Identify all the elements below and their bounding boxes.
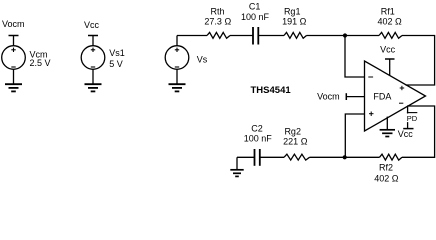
- resistor Rf2: [380, 154, 403, 160]
- ground (below Vs1): [85, 84, 102, 91]
- svg-text:27.3 Ω: 27.3 Ω: [204, 17, 231, 27]
- terminal Vcc: [88, 35, 98, 37]
- wire Vocm to FDA: [346, 96, 364, 98]
- wire Rg2 to junction and Rf2: [310, 156, 380, 158]
- capacitor C2: [255, 149, 260, 166]
- svg-text:THS4541: THS4541: [251, 85, 292, 96]
- voltage source Vs1: [81, 36, 105, 85]
- svg-text:Rth: Rth: [210, 6, 224, 16]
- svg-text:C1: C1: [249, 2, 261, 12]
- svg-text:191 Ω: 191 Ω: [282, 17, 307, 27]
- wire Rf2 to bottom output (feedback): [402, 106, 435, 157]
- wire ground to C2: [237, 156, 255, 158]
- pin plus (output): [400, 86, 405, 90]
- pin PD (power down) wire: [407, 106, 409, 128]
- pin label PD (overbar): [406, 113, 419, 124]
- terminal Vcc supply: [385, 58, 395, 60]
- voltage source Vcm: [2, 36, 26, 85]
- ground (below Vs): [169, 84, 186, 91]
- svg-text:5 V: 5 V: [109, 59, 123, 69]
- svg-text:Rf2: Rf2: [379, 163, 393, 173]
- resistor Rg1: [284, 32, 307, 38]
- wire Vs to Rth: [177, 35, 207, 37]
- resistor Rg2: [284, 154, 310, 160]
- pin minus (output): [399, 102, 403, 104]
- terminal Vocm input: [345, 93, 347, 100]
- svg-text:100 nF: 100 nF: [244, 134, 273, 144]
- wire Rf1 to top output (feedback): [402, 36, 435, 86]
- svg-text:Vs: Vs: [197, 54, 208, 64]
- resistor Rth: [207, 32, 230, 38]
- terminal Vocm: [9, 35, 19, 37]
- svg-text:Vs1: Vs1: [109, 48, 125, 58]
- svg-text:221 Ω: 221 Ω: [283, 137, 308, 147]
- pin plus (input): [369, 112, 374, 117]
- svg-text:Vocm: Vocm: [2, 19, 25, 29]
- resistor Rf1: [379, 32, 402, 38]
- svg-text:PD: PD: [407, 114, 418, 123]
- capacitor C1: [253, 27, 258, 45]
- terminal Vcc at PD: [403, 128, 413, 130]
- ground (at C2): [230, 157, 243, 176]
- junction node (inverting input net): [343, 33, 347, 37]
- wire C1 to Rg1: [258, 35, 284, 37]
- svg-text:Rg2: Rg2: [284, 126, 301, 136]
- junction node (non-inverting input net): [343, 155, 347, 159]
- ground (below FDA): [380, 117, 395, 137]
- svg-text:C2: C2: [251, 124, 263, 134]
- ground (below Vcm): [5, 84, 22, 91]
- wire Rth to C1: [230, 35, 253, 37]
- op-amp U1 THS4541 FDA triangle: [365, 61, 426, 131]
- svg-text:Vcc: Vcc: [84, 20, 100, 30]
- svg-text:Rf1: Rf1: [381, 7, 395, 17]
- wire top output stub handled above; wire plus input: [345, 114, 364, 157]
- wire Rg1 to junction and Rf1: [307, 35, 380, 37]
- svg-text:Vocm: Vocm: [317, 92, 340, 102]
- svg-text:402 Ω: 402 Ω: [377, 17, 402, 27]
- svg-text:Vcc: Vcc: [380, 44, 396, 54]
- svg-text:FDA: FDA: [373, 91, 391, 101]
- wire junction down to FDA minus input: [345, 36, 365, 78]
- wire Vcc supply to FDA: [389, 59, 391, 76]
- svg-text:2.5 V: 2.5 V: [30, 58, 51, 68]
- wire C2 to Rg2: [260, 156, 284, 158]
- pin minus (input): [368, 76, 373, 78]
- svg-text:Vcc: Vcc: [398, 129, 414, 139]
- svg-text:402 Ω: 402 Ω: [374, 174, 399, 184]
- svg-text:Rg1: Rg1: [284, 6, 301, 16]
- voltage source Vs: [165, 36, 189, 85]
- svg-text:100 nF: 100 nF: [241, 12, 270, 22]
